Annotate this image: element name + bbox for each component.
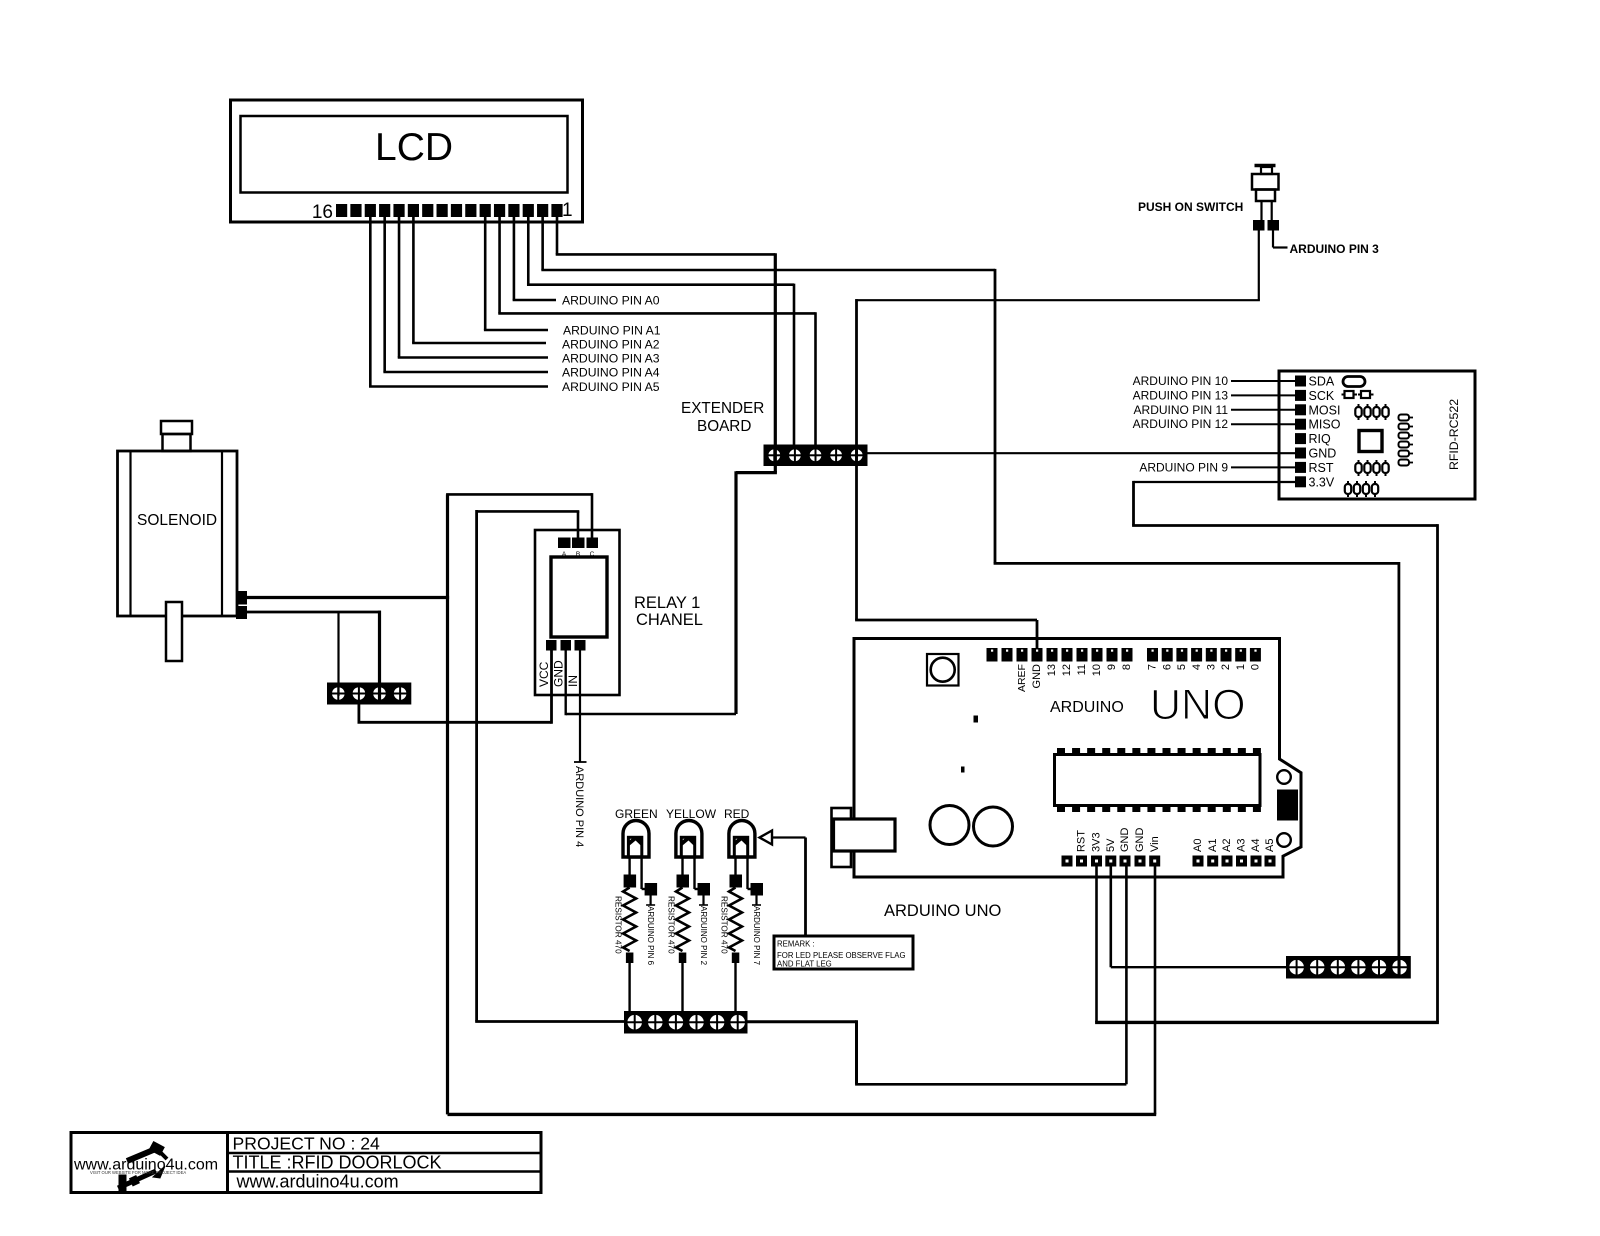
RFID crystal oval	[1343, 377, 1365, 387]
arrow pointing to RED LED	[760, 831, 773, 845]
4-pin connector terminal 4 screw	[393, 686, 407, 700]
svg-text:RESISTOR 470: RESISTOR 470	[614, 896, 623, 954]
RFID small resistor 1	[1345, 391, 1354, 398]
svg-text:www.arduino4u.com: www.arduino4u.com	[236, 1172, 399, 1192]
arduino pin pad 3	[1206, 648, 1217, 662]
svg-text:SCK: SCK	[1309, 389, 1335, 403]
arduino pin pad 0	[1250, 648, 1261, 662]
svg-text:RESISTOR 470: RESISTOR 470	[720, 896, 729, 954]
svg-text:RED: RED	[724, 807, 750, 821]
arduino tiny silk marks	[974, 716, 979, 723]
title block divider row2	[228, 1170, 542, 1173]
LCD pin 16 pad	[336, 204, 347, 217]
LED YELLOW anode leg	[693, 857, 695, 889]
LED YELLOW cathode leg	[681, 857, 683, 875]
svg-text:RIQ: RIQ	[1309, 432, 1332, 446]
svg-text:5V: 5V	[1105, 838, 1117, 852]
arduino analog pin A5	[1265, 856, 1276, 867]
relay module box K1	[535, 530, 620, 695]
RFID-RC522 module box U2	[1279, 371, 1475, 499]
arduino reset button	[927, 654, 959, 686]
wire LCD pin5 down	[498, 217, 501, 313]
svg-text:TITLE :RFID DOORLOCK: TITLE :RFID DOORLOCK	[233, 1153, 442, 1173]
wire LED GREEN anode stub	[649, 896, 651, 906]
svg-text:ARDUINO PIN 3: ARDUINO PIN 3	[1290, 242, 1380, 256]
svg-text:A2: A2	[1221, 839, 1233, 852]
svg-text:ARDUINO PIN 13: ARDUINO PIN 13	[1133, 388, 1229, 402]
svg-text:ARDUINO PIN 11: ARDUINO PIN 11	[1134, 403, 1229, 417]
svg-text:3V3: 3V3	[1091, 832, 1103, 852]
svg-text:A5: A5	[1264, 839, 1276, 852]
svg-text:RELAY 1: RELAY 1	[634, 594, 700, 612]
svg-text:ARDUINO PIN A3: ARDUINO PIN A3	[562, 352, 660, 366]
svg-text:AND FLAT LEG: AND FLAT LEG	[777, 960, 832, 969]
wire down into extender terminal T3	[814, 312, 817, 444]
resistor 470 for LED RED	[729, 888, 742, 952]
J3 terminal 6 screw	[730, 1014, 746, 1030]
svg-text:IN: IN	[566, 675, 580, 687]
solenoid pad 1	[236, 591, 247, 605]
wire RFID 3.3V to arduino 3V3	[1134, 481, 1296, 483]
wire overlay into right connector T6	[1398, 956, 1401, 977]
arduino analog pin A4	[1251, 856, 1262, 867]
arduino analog pin A3	[1236, 856, 1247, 867]
wire ARDUINO PIN 10 to RFID pad	[1231, 380, 1295, 382]
svg-text:UNO: UNO	[1150, 681, 1246, 729]
wire ARDUINO PIN 9 to RFID pad	[1231, 466, 1295, 468]
wire ARDUINO PIN 12 to RFID pad	[1231, 423, 1295, 425]
svg-text:RST: RST	[1076, 830, 1088, 852]
svg-text:ARDUINO PIN A4: ARDUINO PIN A4	[562, 366, 660, 380]
J4 terminal 5 screw	[1371, 959, 1387, 975]
LCD pin 15 pad	[350, 204, 361, 217]
svg-text:A0: A0	[1192, 839, 1204, 852]
svg-text:6: 6	[1161, 664, 1173, 670]
wire 4pin terminal2 to relay VCC	[357, 705, 360, 723]
wire y494 to relay pad C	[446, 493, 592, 496]
arduino pin pad 7	[1147, 648, 1158, 662]
wire arrow to remark box	[772, 836, 806, 838]
LED YELLOW cathode pad	[677, 875, 690, 888]
J4 terminal 2 screw	[1309, 959, 1325, 975]
svg-text:ARDUINO PIN 9: ARDUINO PIN 9	[1139, 460, 1228, 474]
wire LCD pin4 to label A0	[513, 299, 556, 302]
relay bottom pads VCC GND IN	[546, 640, 557, 651]
wire LCD pin3 right to extender T2	[527, 283, 794, 286]
arduino pin pad 4	[1191, 648, 1202, 662]
wire solenoid pad2 to 4-pin connector	[247, 611, 381, 614]
LCD pin 5 pad	[494, 204, 505, 217]
RFID pin pad RST	[1295, 462, 1306, 473]
LCD pin 14 pad	[365, 204, 376, 217]
arduino pin pad nc	[1002, 648, 1013, 662]
LED GREEN anode leg	[640, 857, 642, 889]
wire LCD pin2 horizontal y563	[994, 562, 1399, 565]
svg-text:AREF: AREF	[1016, 664, 1028, 692]
LED GREEN cathode pad	[624, 875, 637, 888]
LCD pin 9 pad	[437, 204, 448, 217]
relay inner box	[551, 557, 607, 637]
wire LCD pin3 down	[527, 217, 530, 285]
J3 terminal 2 screw	[647, 1014, 663, 1030]
REMARK note box	[774, 936, 913, 969]
wire LCD pin11 down	[412, 217, 415, 343]
svg-text:ARDUINO UNO: ARDUINO UNO	[884, 902, 1002, 920]
LCD pin 13 pad	[379, 204, 390, 217]
svg-text:REMARK :: REMARK :	[777, 940, 815, 949]
RFID pin pad 3.3V	[1295, 476, 1306, 487]
LCD pin 12 pad	[393, 204, 404, 217]
RFID pin pad MISO	[1295, 419, 1306, 430]
wire LCD pin11 to label A2	[412, 342, 546, 345]
J4 terminal 1 screw	[1288, 959, 1304, 975]
wire extender T1 bottom jog to relay GND net	[774, 466, 777, 473]
wire long vertical x447 (Vin net)	[446, 494, 449, 1114]
RFID pin pad SDA	[1295, 376, 1306, 387]
svg-text:ARDUINO PIN 4: ARDUINO PIN 4	[573, 766, 585, 847]
wire overlay through extender T1	[774, 445, 777, 467]
wire LCD pin5 right to extender T3	[498, 312, 815, 315]
title block vertical divider	[226, 1133, 229, 1193]
6-terminal connector J4	[1286, 956, 1411, 979]
J4 terminal 6 screw	[1391, 959, 1407, 975]
switch left leg	[1260, 201, 1262, 220]
RFID capacitor row top	[1355, 407, 1361, 417]
solenoid body	[118, 451, 238, 616]
svg-text:ARDUINO PIN 7: ARDUINO PIN 7	[752, 906, 761, 966]
arduino power pin nc	[1062, 856, 1073, 867]
svg-text:GND: GND	[1134, 828, 1146, 853]
svg-text:9: 9	[1106, 664, 1118, 670]
wire LCD pin13 to label A4	[383, 371, 548, 374]
RFID capacitor row bottom	[1345, 484, 1351, 494]
svg-text:1: 1	[1235, 664, 1247, 670]
J3 terminal 3 screw	[668, 1014, 684, 1030]
svg-text:VISIT OUR WEBSITE FOR MORE PRO: VISIT OUR WEBSITE FOR MORE PROJECT IDEA	[90, 1170, 186, 1175]
solenoid bottom plunger	[166, 602, 182, 661]
svg-text:ARDUINO PIN 6: ARDUINO PIN 6	[646, 906, 655, 966]
J3 terminal 1 screw	[627, 1014, 643, 1030]
LCD pin 6 pad	[480, 204, 491, 217]
arduino capacitor circles	[930, 806, 969, 845]
svg-text:YELLOW: YELLOW	[666, 807, 717, 821]
LED YELLOW	[676, 821, 702, 858]
4-pin connector terminal 3 screw	[372, 686, 386, 700]
wire ARDUINO PIN 11 to RFID pad	[1231, 409, 1295, 411]
wire overlay through 4-pin T1	[337, 683, 339, 697]
RFID pin pad RIQ	[1295, 433, 1306, 444]
push-on switch body	[1252, 174, 1279, 190]
svg-text:11: 11	[1076, 664, 1088, 675]
LCD pin 8 pad	[451, 204, 462, 217]
arduino pin pad 12	[1062, 648, 1073, 662]
svg-text:GND: GND	[1309, 447, 1337, 461]
svg-text:0: 0	[1250, 664, 1262, 670]
wire down into extender terminal T1	[774, 253, 777, 444]
svg-text:1: 1	[562, 200, 573, 221]
arduino pin pad 9	[1107, 648, 1118, 662]
RFID small resistor 2	[1361, 391, 1370, 398]
svg-text:12: 12	[1061, 664, 1073, 676]
arduino pin pad AREF	[1017, 648, 1028, 662]
svg-text:EXTENDER: EXTENDER	[681, 400, 764, 417]
svg-text:GND: GND	[1119, 828, 1131, 853]
arduino pin pad 11	[1077, 648, 1088, 662]
push-on switch SW1 top cap	[1255, 164, 1276, 168]
arduino mounting holes + ICSP	[1277, 790, 1298, 821]
wire LED YELLOW anode stub	[702, 896, 704, 906]
arduino pin pad 13	[1047, 648, 1058, 662]
LED RED anode pad	[751, 883, 764, 896]
wire LCD pin14 down	[369, 217, 372, 387]
arduino power pin Vin	[1149, 856, 1160, 867]
wire arduino 3V3 to RFID 3.3V	[1095, 867, 1098, 1023]
svg-text:2: 2	[1220, 664, 1232, 670]
arduino analog pin A2	[1222, 856, 1233, 867]
svg-text:LCD: LCD	[375, 126, 453, 169]
arduino analog pin A0	[1193, 856, 1204, 867]
wire LCD pin2 long vertical x995	[994, 269, 997, 564]
extender terminal 4 screw	[829, 449, 843, 463]
switch left pad	[1253, 220, 1265, 231]
wire switch left pad to arduino GND pin (via extender T5)	[1258, 231, 1260, 301]
wire long vertical x476	[475, 510, 478, 1022]
LCD pin 4 pad	[508, 204, 519, 217]
arduino4u logo sketch	[118, 1142, 167, 1191]
LCD pin 7 pad	[465, 204, 476, 217]
wire LCD pin12 down	[398, 217, 401, 358]
title block frame	[71, 1133, 541, 1193]
wire overlay through 4-pin T3	[378, 683, 381, 705]
4-terminal connector J2	[327, 683, 411, 705]
LCD pin 11 pad	[408, 204, 419, 217]
solenoid inner line left	[129, 451, 131, 616]
solenoid pad 2	[236, 606, 247, 619]
svg-text:7: 7	[1147, 664, 1159, 670]
wire LCD pin6 down	[484, 217, 487, 330]
wire arduino 5V to right connector	[1110, 867, 1113, 968]
LCD pin 3 pad	[523, 204, 534, 217]
svg-text:Vin: Vin	[1149, 836, 1161, 852]
RFID pin pad SCK	[1295, 390, 1306, 401]
wire LCD pin4 down	[513, 217, 516, 300]
svg-text:SOLENOID: SOLENOID	[137, 512, 217, 529]
wire J3 right side to arduino GND	[748, 1020, 857, 1023]
resistor bottom pad (YELLOW)	[679, 953, 687, 964]
switch right pad	[1268, 220, 1280, 231]
LED RED cathode pad	[730, 875, 743, 888]
extender terminal 2 screw	[788, 449, 802, 463]
wire LCD pin6 to label A1	[484, 329, 548, 332]
arduino USB connector	[832, 808, 852, 867]
LED GREEN cathode leg	[628, 857, 630, 875]
arduino pin pad 6	[1162, 648, 1173, 662]
LCD pin 1 pad	[551, 204, 562, 217]
LCD pin 10 pad	[422, 204, 433, 217]
wire branch down to 4pin terminal 1	[337, 612, 339, 683]
svg-text:RESISTOR 470: RESISTOR 470	[667, 896, 676, 954]
wire arduino GND to LED connector	[1125, 867, 1128, 1085]
solenoid inner line right	[221, 451, 223, 616]
svg-text:3.3V: 3.3V	[1309, 475, 1335, 489]
RFID pin pad MOSI	[1295, 404, 1306, 415]
wire overlay through extender T5	[855, 445, 858, 467]
wire LCD pin2 down	[541, 217, 544, 270]
wire LCD pin13 down	[383, 217, 386, 372]
arduino pin pad 8	[1122, 648, 1133, 662]
svg-text:ARDUINO PIN A0: ARDUINO PIN A0	[562, 294, 660, 308]
svg-text:10: 10	[1091, 664, 1103, 676]
4-pin connector terminal 1 screw	[331, 686, 345, 700]
LCD module inner box	[241, 116, 568, 193]
switch right leg	[1271, 201, 1273, 220]
arduino analog pin A1	[1207, 856, 1218, 867]
arduino pin pad 2	[1221, 648, 1232, 662]
svg-text:A1: A1	[1207, 839, 1219, 852]
svg-text:PUSH ON SWITCH: PUSH ON SWITCH	[1138, 200, 1243, 214]
svg-text:VCC: VCC	[537, 661, 551, 687]
relay top pads A B C	[558, 538, 571, 549]
J3 terminal 5 screw	[709, 1014, 725, 1030]
extender terminal 5 screw	[850, 449, 864, 463]
svg-text:BOARD: BOARD	[697, 418, 751, 435]
RFID capacitor row middle	[1355, 463, 1361, 473]
resistor bottom pad (RED)	[732, 953, 740, 964]
svg-text:ARDUINO PIN A2: ARDUINO PIN A2	[562, 338, 660, 352]
RFID pin pad GND	[1295, 448, 1306, 459]
RFID pin column	[1399, 415, 1410, 421]
svg-text:GND: GND	[1031, 664, 1043, 689]
wire down into relay pad C	[591, 493, 594, 537]
svg-text:A4: A4	[1250, 839, 1262, 852]
arduino power pin GND	[1135, 856, 1146, 867]
svg-text:GND: GND	[552, 660, 566, 687]
wire relay pad B to LED common net	[577, 511, 580, 537]
svg-text:A3: A3	[1236, 839, 1248, 852]
LCD module outer box	[231, 100, 583, 222]
svg-text:13: 13	[1046, 664, 1058, 676]
4-pin connector terminal 2 screw	[352, 686, 366, 700]
svg-text:4: 4	[1191, 664, 1203, 670]
svg-text:RST: RST	[1309, 461, 1334, 475]
svg-text:MISO: MISO	[1309, 418, 1341, 432]
6-terminal connector J3 (LEDs)	[624, 1011, 748, 1034]
resistor bottom pad (GREEN)	[626, 953, 634, 964]
wire solenoid pad1 to relay C / Vin net	[247, 596, 449, 599]
wire ARDUINO PIN 13 to RFID pad	[1231, 394, 1295, 396]
extender terminal 1 screw	[768, 449, 782, 463]
LED RED anode leg	[746, 857, 748, 889]
arduino pin pad GND	[1032, 648, 1043, 662]
wire LCD pin2 right	[541, 269, 995, 272]
LED RED	[729, 821, 755, 858]
wire extender GND to RFID GND	[868, 452, 1296, 454]
arduino power pin RST	[1076, 856, 1087, 867]
wire LED RED anode stub	[755, 896, 757, 906]
svg-text:5: 5	[1176, 664, 1188, 670]
J4 terminal 4 screw	[1350, 959, 1366, 975]
svg-text:CHANEL: CHANEL	[636, 611, 703, 629]
wire down into extender terminal T2	[793, 284, 796, 445]
extender board 5-terminal connector J1	[764, 445, 868, 467]
wire y1114 to arduino Vin	[448, 1113, 1157, 1116]
wire arduino Vin down to solenoid net	[1154, 867, 1157, 1115]
Arduino UNO board outline U1	[854, 639, 1301, 878]
arduino IC chip	[1055, 755, 1261, 806]
wire relay IN to ARDUINO PIN 4	[579, 651, 581, 763]
arduino power pin 3V3	[1091, 856, 1102, 867]
wire LCD pin14 to label A5	[369, 385, 548, 388]
arduino pin pad 10	[1092, 648, 1103, 662]
wire LCD pin12 to label A3	[398, 356, 548, 359]
svg-text:16: 16	[312, 202, 333, 223]
wire switch right pad to ARDUINO PIN 3 label	[1272, 231, 1274, 248]
svg-text:MOSI: MOSI	[1309, 403, 1341, 417]
svg-text:ARDUINO PIN A5: ARDUINO PIN A5	[562, 380, 660, 394]
LED GREEN	[623, 821, 649, 858]
solenoid top plunger	[161, 421, 192, 434]
J4 terminal 3 screw	[1330, 959, 1346, 975]
svg-text:ARDUINO: ARDUINO	[1050, 699, 1124, 716]
svg-text:ARDUINO PIN 2: ARDUINO PIN 2	[699, 906, 708, 966]
svg-text:3: 3	[1206, 664, 1218, 670]
RFID IC chip square	[1359, 431, 1382, 452]
extender terminal 3 screw	[809, 449, 823, 463]
wire down to 4pin terminal 3	[378, 611, 381, 683]
svg-text:ARDUINO PIN 10: ARDUINO PIN 10	[1133, 374, 1229, 388]
LED YELLOW anode pad	[698, 883, 711, 896]
arduino pin pad 5	[1176, 648, 1187, 662]
svg-text:SDA: SDA	[1309, 375, 1335, 389]
arduino pin pad 1	[1235, 648, 1246, 662]
arduino power pin 5V	[1105, 856, 1116, 867]
wire LCD pin1 right to extender T1	[556, 253, 776, 256]
resistor 470 for LED YELLOW	[676, 888, 689, 952]
J3 terminal 4 screw	[688, 1014, 704, 1030]
wire LCD pin1 down	[556, 217, 559, 254]
wire resistor to connector (YELLOW)	[681, 963, 683, 1012]
svg-text:ARDUINO PIN 12: ARDUINO PIN 12	[1133, 417, 1229, 431]
arduino power pin GND	[1120, 856, 1131, 867]
LCD pin 2 pad	[537, 204, 548, 217]
LED GREEN anode pad	[645, 883, 658, 896]
svg-text:8: 8	[1121, 664, 1133, 670]
arduino pin pad nc	[987, 648, 998, 662]
wire resistor to connector (RED)	[734, 963, 736, 1012]
resistor 470 for LED GREEN	[623, 888, 636, 952]
svg-text:RFID-RC522: RFID-RC522	[1447, 399, 1461, 470]
wire resistor to connector (GREEN)	[628, 963, 630, 1012]
wire into left 6-pin connector	[475, 1020, 624, 1023]
svg-text:ARDUINO PIN A1: ARDUINO PIN A1	[563, 324, 661, 338]
title block divider row1	[228, 1152, 542, 1155]
wire LCD pin2 down to right connector T6	[1398, 562, 1401, 956]
LED RED cathode leg	[734, 857, 736, 875]
svg-text:PROJECT NO : 24: PROJECT NO : 24	[233, 1134, 381, 1154]
